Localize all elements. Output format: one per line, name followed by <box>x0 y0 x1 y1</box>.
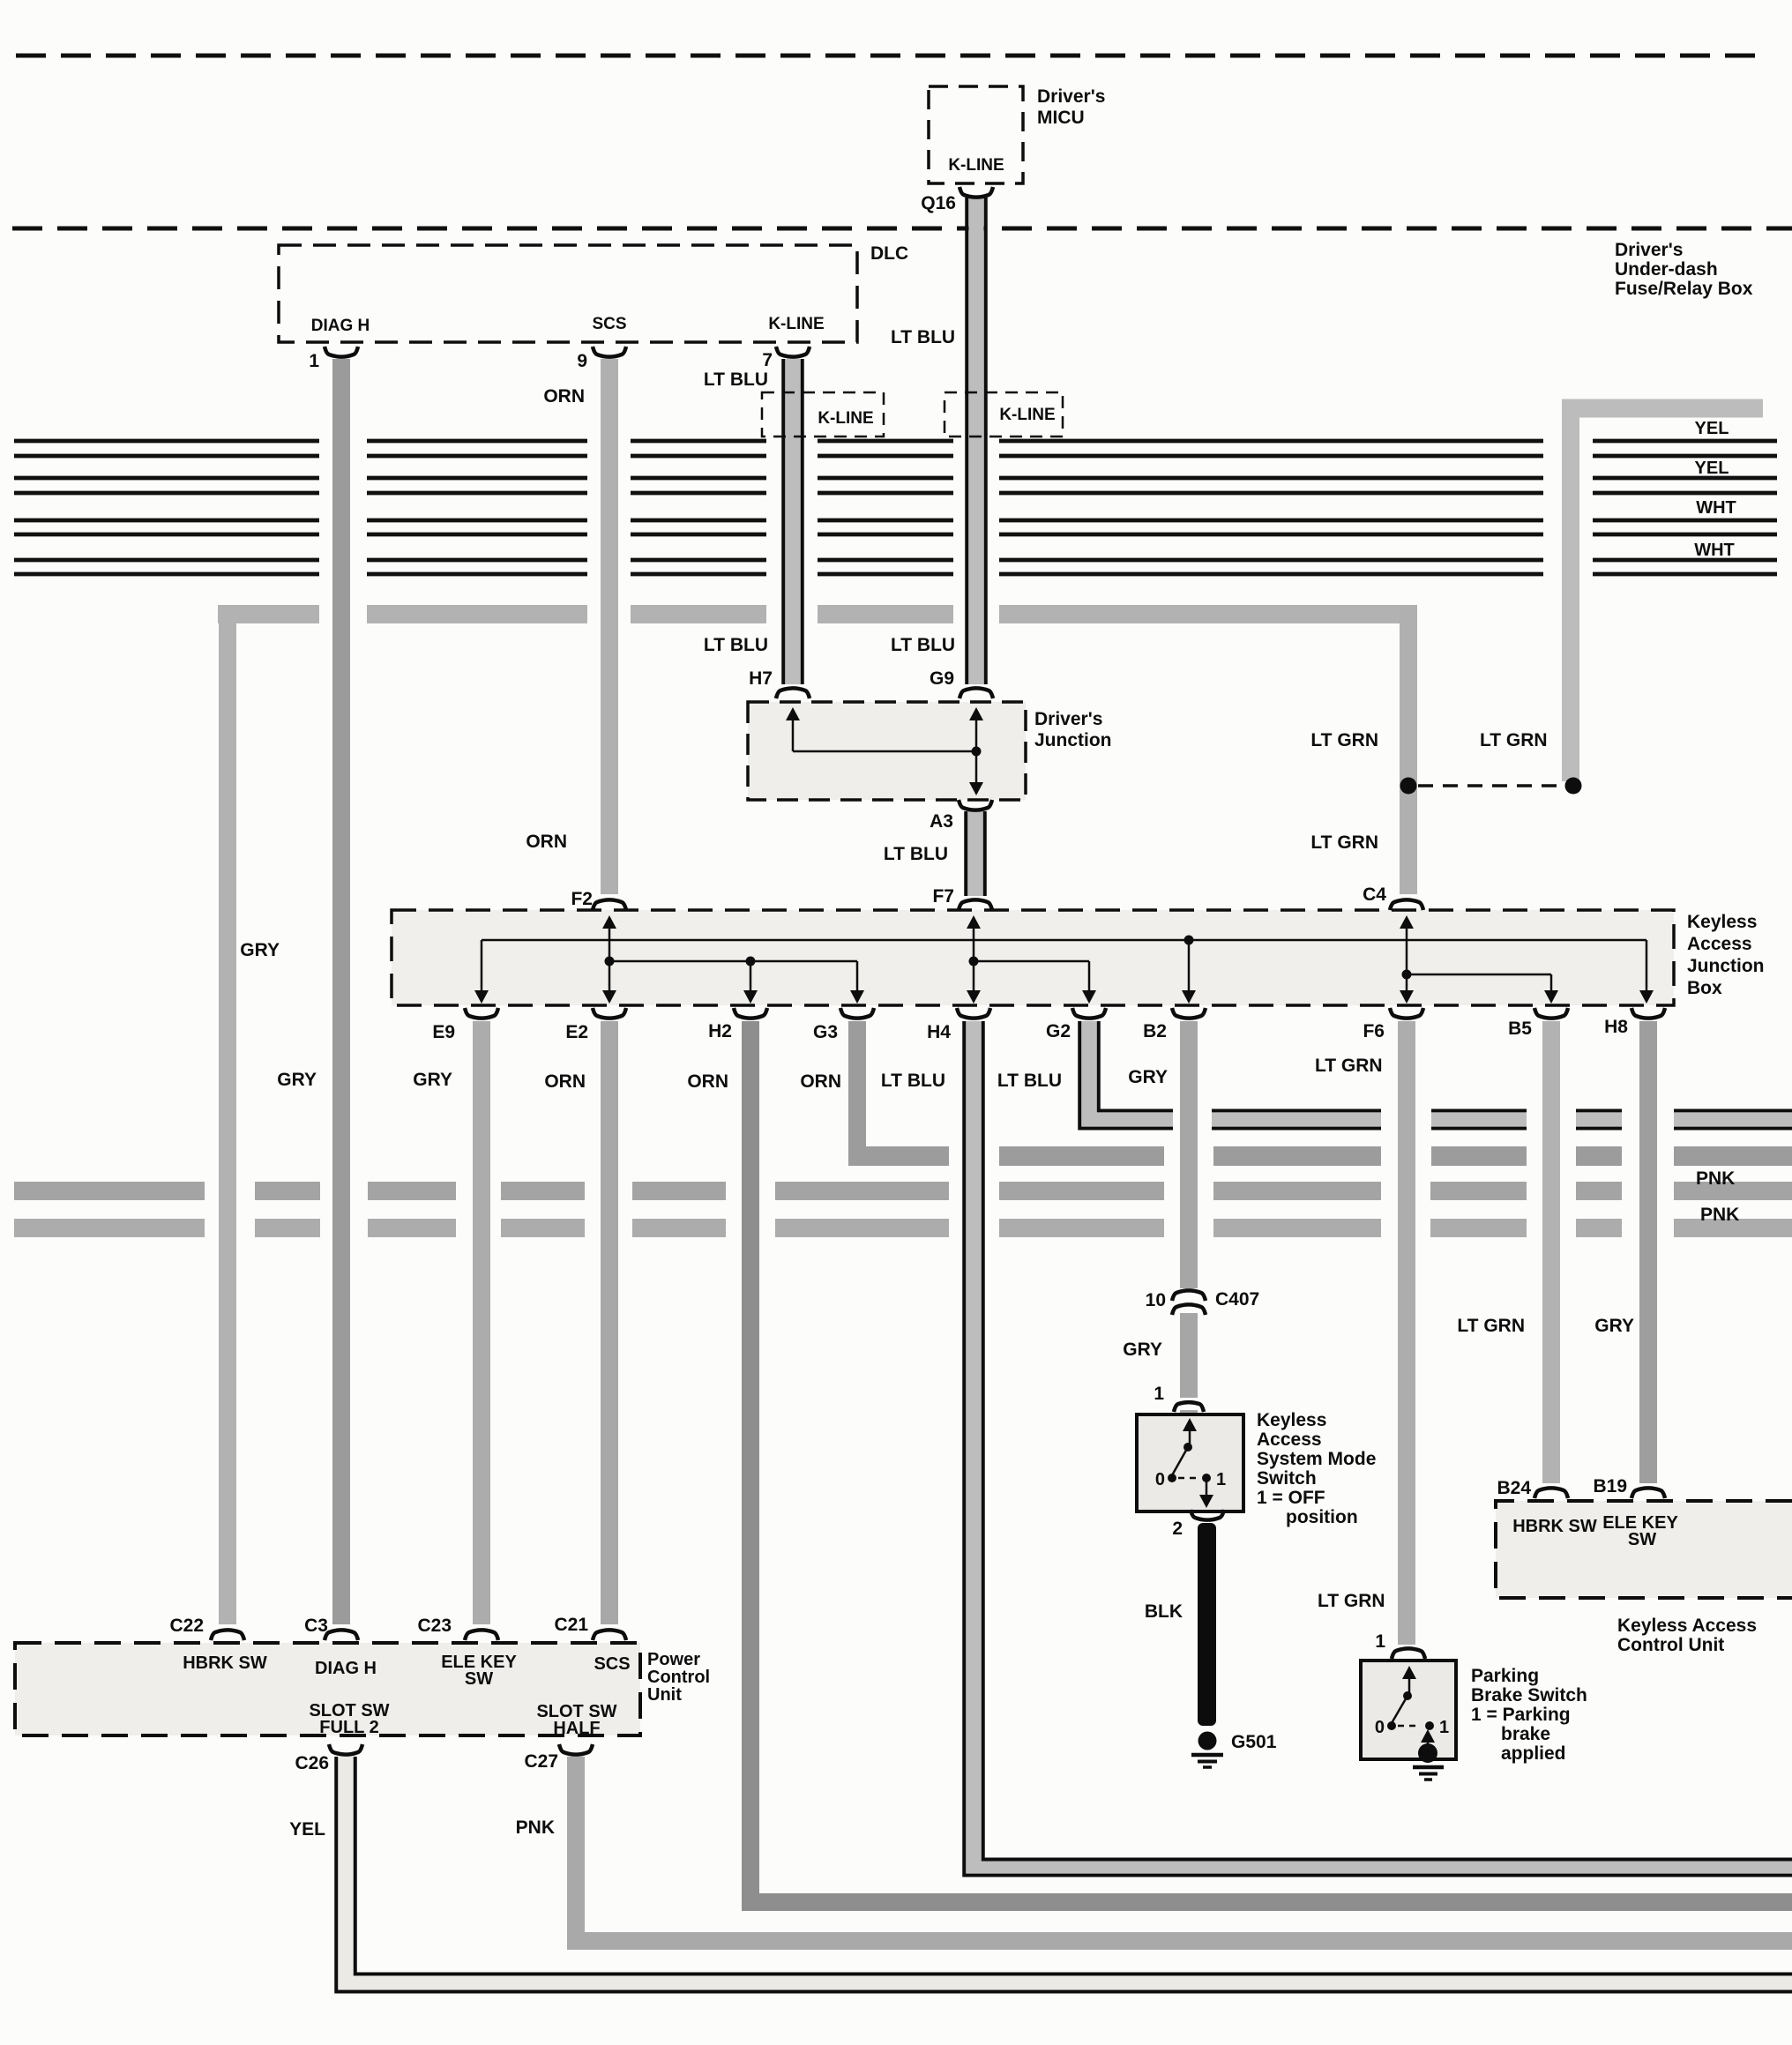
svg-text:G9: G9 <box>930 668 954 689</box>
pin G3 <box>840 1008 874 1019</box>
pin 1 of parking brake switch <box>1392 1648 1425 1659</box>
svg-text:Switch: Switch <box>1257 1468 1317 1489</box>
svg-text:SCS: SCS <box>592 315 626 333</box>
svg-text:B19: B19 <box>1593 1476 1627 1496</box>
wire: H8 drop <box>1646 940 1648 993</box>
box: Driver's MICU <box>929 86 1023 183</box>
svg-text:1: 1 <box>309 351 319 371</box>
wire: junction internal crossbar <box>793 750 976 753</box>
wire: top dashed boundary line <box>16 54 1759 58</box>
svg-text:E2: E2 <box>565 1022 588 1042</box>
svg-text:SW: SW <box>1628 1530 1656 1549</box>
wire GRY: left vertical from band to C22 <box>219 605 236 1624</box>
wire: internal line to B5 <box>1407 974 1551 976</box>
wire GRY: E9 to C23 <box>473 1021 490 1624</box>
wire LT GRN: B5 to B24 <box>1542 1021 1560 1483</box>
svg-text:Brake Switch: Brake Switch <box>1471 1685 1587 1705</box>
svg-text:C3: C3 <box>304 1616 328 1636</box>
pin 9 of DLC <box>593 347 626 357</box>
svg-text:G2: G2 <box>1046 1021 1071 1041</box>
svg-text:C407: C407 <box>1215 1289 1259 1310</box>
pin G2 <box>1072 1008 1106 1019</box>
pin C27 <box>559 1744 593 1755</box>
svg-text:C4: C4 <box>1363 884 1386 905</box>
pin 7 of DLC <box>776 347 810 357</box>
svg-text:Control: Control <box>647 1668 710 1687</box>
svg-text:10: 10 <box>1146 1290 1166 1310</box>
svg-text:Q16: Q16 <box>921 193 956 213</box>
wire LT BLU: A3 to F7 <box>968 811 983 896</box>
svg-text:LT GRN: LT GRN <box>1310 730 1378 750</box>
svg-text:K-LINE: K-LINE <box>948 156 1004 175</box>
wire: internal line B to H2/G3 <box>609 960 857 963</box>
svg-text:HBRK SW: HBRK SW <box>183 1653 267 1673</box>
svg-text:ORN: ORN <box>544 1071 586 1092</box>
box: Power Control Unit <box>15 1643 640 1735</box>
wire LT GRN: right top horizontal + vertical to junction dot <box>1562 399 1763 418</box>
svg-text:1: 1 <box>1439 1718 1449 1737</box>
svg-text:LT BLU: LT BLU <box>997 1071 1062 1091</box>
svg-text:Driver's: Driver's <box>1034 709 1102 729</box>
svg-text:BLK: BLK <box>1145 1601 1183 1622</box>
wire: junction internal H7 riser <box>792 716 795 751</box>
svg-text:applied: applied <box>1501 1743 1566 1764</box>
svg-text:E9: E9 <box>432 1022 455 1042</box>
pin E2 <box>593 1008 626 1019</box>
pin 1 of DLC <box>325 347 358 357</box>
svg-text:WHT: WHT <box>1694 541 1735 560</box>
svg-text:Junction: Junction <box>1687 956 1765 976</box>
svg-text:Driver's: Driver's <box>1615 240 1683 260</box>
wire bus: fuse box horizontal conductors <box>14 441 1777 574</box>
svg-text:Under-dash: Under-dash <box>1615 259 1718 280</box>
svg-text:FULL 2: FULL 2 <box>319 1718 378 1737</box>
wire GRY: H8 to B19 <box>1639 1021 1657 1483</box>
svg-text:F2: F2 <box>571 889 593 909</box>
wire: dashed link between splice dots <box>1418 784 1563 787</box>
svg-text:GRY: GRY <box>240 940 280 960</box>
wire: junction internal G9-A3 through line <box>975 716 978 787</box>
pin A3 <box>959 800 992 810</box>
wire PNK: row 3 horizontal <box>14 1219 205 1237</box>
svg-text:ORN: ORN <box>800 1071 841 1092</box>
svg-text:G501: G501 <box>1231 1732 1277 1752</box>
pin 1 of mode switch <box>1174 1402 1204 1412</box>
switch: Keyless Access System Mode Switch <box>1137 1414 1243 1511</box>
svg-text:DLC: DLC <box>870 243 908 264</box>
svg-text:7: 7 <box>762 350 773 370</box>
svg-text:Keyless: Keyless <box>1257 1410 1326 1430</box>
svg-text:GRY: GRY <box>1128 1067 1168 1087</box>
wire ORN: SCS from DLC pin 9 to F2 <box>601 359 618 894</box>
svg-text:Unit: Unit <box>647 1685 682 1705</box>
box: Keyless Access Junction Box <box>392 910 1674 1005</box>
svg-text:ORN: ORN <box>687 1071 728 1092</box>
pin C23 <box>465 1630 498 1640</box>
svg-text:G3: G3 <box>813 1022 838 1042</box>
pin C4 <box>1390 899 1423 910</box>
svg-text:YEL: YEL <box>1695 459 1729 478</box>
pin F2 <box>593 899 626 910</box>
wire PNK: row 2 horizontal <box>14 1182 205 1200</box>
box: K-LINE splice (left) <box>762 392 884 437</box>
wire: internal line to G2 <box>974 960 1089 963</box>
pin C26 <box>329 1744 362 1755</box>
svg-text:YEL: YEL <box>289 1819 325 1840</box>
svg-text:LT BLU: LT BLU <box>891 635 955 655</box>
svg-text:C27: C27 <box>524 1751 558 1772</box>
wire: fuse/relay box dashed boundary line <box>12 227 1792 231</box>
svg-text:C23: C23 <box>417 1616 452 1636</box>
node: junction dot <box>972 747 982 757</box>
wire LT BLU: K-LINE from DLC pin 7 to H7 <box>786 359 801 684</box>
svg-text:System Mode: System Mode <box>1257 1449 1376 1469</box>
box: Keyless Access Control Unit <box>1496 1501 1792 1598</box>
svg-text:H8: H8 <box>1604 1017 1628 1037</box>
wire: junction box internal bus line A <box>482 939 1646 942</box>
svg-text:Keyless Access: Keyless Access <box>1617 1616 1757 1636</box>
svg-text:WHT: WHT <box>1696 498 1736 518</box>
wire ORN: H2 down and right (row B) <box>742 1021 759 1911</box>
wire: gray distribution band y=686-707 <box>218 605 319 623</box>
connector C407 <box>1172 1290 1206 1301</box>
pin C3 <box>325 1630 358 1640</box>
pin C22 <box>211 1630 244 1640</box>
switch: Parking Brake Switch <box>1361 1661 1456 1759</box>
svg-text:PNK: PNK <box>1696 1168 1735 1189</box>
wire BLK: mode switch pin 2 to G501 <box>1198 1523 1216 1726</box>
svg-text:Access: Access <box>1257 1429 1322 1450</box>
wire GRY: B2 to C407 and mode switch pin 1 <box>1180 1021 1198 1288</box>
svg-text:GRY: GRY <box>277 1070 317 1090</box>
pin C21 <box>593 1630 626 1640</box>
svg-text:ORN: ORN <box>543 386 585 407</box>
svg-text:C26: C26 <box>295 1753 329 1773</box>
pin 2 of mode switch <box>1191 1510 1224 1520</box>
box: DLC <box>279 245 857 342</box>
svg-text:SW: SW <box>465 1669 493 1689</box>
svg-text:GRY: GRY <box>1594 1316 1634 1336</box>
svg-text:LT BLU: LT BLU <box>884 844 948 864</box>
pin H8 <box>1631 1008 1665 1019</box>
svg-text:LT GRN: LT GRN <box>1318 1591 1385 1611</box>
wire ORN: G3 down, turns right (row 1) <box>848 1021 866 1166</box>
svg-text:B2: B2 <box>1143 1021 1167 1041</box>
svg-text:ORN: ORN <box>526 832 567 852</box>
svg-text:DIAG H: DIAG H <box>315 1659 377 1678</box>
svg-text:0: 0 <box>1375 1718 1385 1737</box>
pin H2 <box>734 1008 767 1019</box>
svg-text:PNK: PNK <box>516 1817 555 1838</box>
pin E9 <box>465 1008 498 1019</box>
wire GRY: DIAG H from DLC pin 1 to C3 <box>332 359 350 1624</box>
svg-text:LT GRN: LT GRN <box>1310 832 1378 853</box>
svg-text:2: 2 <box>1172 1519 1183 1539</box>
wire LT BLU: G2 down, turns right (row 0) <box>1082 1021 1097 1126</box>
svg-text:H4: H4 <box>927 1022 951 1042</box>
ground: parking brake switch case ground <box>1418 1743 1437 1763</box>
wire: C4-F6 vertical <box>1406 922 1408 993</box>
svg-text:1: 1 <box>1375 1631 1385 1652</box>
svg-text:1: 1 <box>1154 1384 1164 1404</box>
svg-text:HALF: HALF <box>553 1719 600 1738</box>
pin Q16 connector <box>959 187 993 198</box>
pin B24 <box>1534 1488 1568 1498</box>
wire YEL: C26 down, turns right (row D) <box>339 1757 354 1989</box>
svg-text:Junction: Junction <box>1034 730 1112 750</box>
wire: E9 drop <box>481 940 483 993</box>
svg-text:LT BLU: LT BLU <box>891 327 955 347</box>
svg-text:B24: B24 <box>1497 1478 1531 1498</box>
svg-text:K-LINE: K-LINE <box>818 409 873 428</box>
pin H7 <box>776 688 810 698</box>
svg-text:Control Unit: Control Unit <box>1617 1635 1724 1655</box>
svg-text:HBRK SW: HBRK SW <box>1512 1517 1597 1536</box>
svg-text:LT GRN: LT GRN <box>1315 1056 1383 1076</box>
svg-text:F7: F7 <box>932 886 954 907</box>
svg-text:SCS: SCS <box>594 1654 630 1674</box>
svg-text:PNK: PNK <box>1700 1205 1739 1225</box>
node: dot at B2 <box>1184 936 1194 945</box>
wire: B2 drop <box>1188 940 1191 993</box>
svg-text:H7: H7 <box>749 668 773 689</box>
box: Driver's Junction <box>748 702 1026 800</box>
svg-text:B5: B5 <box>1508 1019 1532 1039</box>
svg-text:Access: Access <box>1687 934 1752 954</box>
svg-text:F6: F6 <box>1363 1021 1385 1041</box>
node: splice dot right <box>1565 778 1582 795</box>
wire LT BLU: K-LINE from Driver MICU Q16 to G9 <box>969 198 984 684</box>
wire LT BLU: H4 down, turns right (row A) <box>967 1021 982 1873</box>
wire ORN: E2 to C21 <box>601 1021 618 1624</box>
svg-text:9: 9 <box>577 351 587 371</box>
svg-text:LT BLU: LT BLU <box>704 635 768 655</box>
svg-text:1: 1 <box>1216 1470 1226 1489</box>
box: K-LINE splice (right) <box>945 392 1063 437</box>
wire LT GRN: F6 to parking brake switch <box>1398 1021 1415 1645</box>
svg-text:LT GRN: LT GRN <box>1457 1316 1525 1336</box>
wire PNK: C27 down and right (row C) <box>567 1757 585 1950</box>
svg-text:YEL: YEL <box>1695 419 1729 438</box>
wire: F2-E2 vertical <box>609 922 611 993</box>
pin F7 <box>959 899 992 910</box>
wire: F7-H4 vertical <box>973 922 975 993</box>
svg-text:K-LINE: K-LINE <box>768 315 824 333</box>
svg-text:LT BLU: LT BLU <box>881 1071 945 1091</box>
svg-text:GRY: GRY <box>1123 1340 1162 1360</box>
wire LT GRN: from band down to junction dot and C4 <box>1400 605 1417 894</box>
svg-text:MICU: MICU <box>1037 108 1085 128</box>
svg-text:Fuse/Relay Box: Fuse/Relay Box <box>1615 279 1753 299</box>
pin H4 <box>957 1008 990 1019</box>
svg-text:brake: brake <box>1501 1724 1550 1744</box>
svg-text:H2: H2 <box>708 1021 732 1041</box>
svg-text:LT BLU: LT BLU <box>704 369 768 390</box>
svg-text:LT GRN: LT GRN <box>1480 730 1548 750</box>
node: dot on F2-E2 <box>605 957 615 967</box>
svg-text:C22: C22 <box>169 1616 204 1636</box>
svg-text:position: position <box>1286 1507 1358 1527</box>
pin F6 <box>1390 1008 1423 1019</box>
svg-text:A3: A3 <box>930 811 953 832</box>
svg-text:Power: Power <box>647 1650 700 1669</box>
svg-text:DIAG H: DIAG H <box>311 317 370 335</box>
svg-text:Driver's: Driver's <box>1037 86 1105 107</box>
svg-text:Keyless: Keyless <box>1687 912 1757 932</box>
svg-text:K-LINE: K-LINE <box>999 406 1055 424</box>
svg-text:GRY: GRY <box>413 1070 452 1090</box>
node: splice dot left <box>1400 778 1417 795</box>
pin G9 <box>959 688 993 698</box>
pin B5 <box>1534 1008 1568 1019</box>
pin B2 <box>1172 1008 1206 1019</box>
svg-text:1 = Parking: 1 = Parking <box>1471 1705 1571 1725</box>
svg-text:0: 0 <box>1155 1470 1165 1489</box>
pin B19 <box>1631 1488 1665 1498</box>
svg-text:1 = OFF: 1 = OFF <box>1257 1488 1325 1508</box>
svg-text:Parking: Parking <box>1471 1666 1539 1686</box>
ground G501 <box>1198 1732 1217 1750</box>
svg-text:Box: Box <box>1687 978 1722 998</box>
svg-text:C21: C21 <box>554 1615 588 1635</box>
